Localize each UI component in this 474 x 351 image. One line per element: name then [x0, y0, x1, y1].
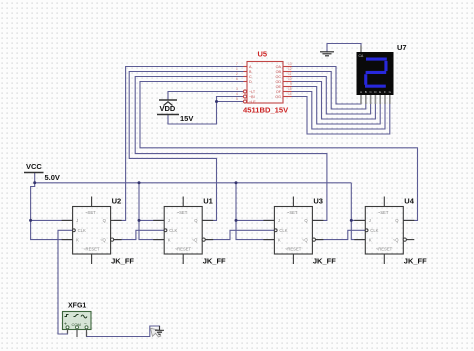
flip-flop U1: [153, 197, 226, 266]
svg-text:U5: U5: [258, 50, 268, 59]
svg-text:JK_FF: JK_FF: [203, 257, 226, 266]
wire U3 notQ to U4 CLK: [316, 230, 365, 239]
flip-flop U2: [62, 197, 135, 266]
wire U1 Q to U5 input B: [129, 72, 245, 221]
svg-text:~LE: ~LE: [249, 100, 256, 104]
svg-text:XFG1: XFG1: [68, 303, 86, 310]
svg-text:10: 10: [288, 77, 292, 81]
junction dots: [29, 100, 353, 222]
mouse cursor: [151, 328, 163, 337]
svg-text:U3: U3: [313, 197, 323, 206]
svg-text:9: 9: [290, 82, 292, 86]
wire VCC drop to U3 J and K: [236, 183, 274, 240]
wire XFG1 output to U2 CLK: [58, 230, 73, 334]
function generator XFG1: [63, 303, 92, 338]
wire VDD bottom to U5 BI pin: [168, 97, 243, 125]
wire U5 OD to display pin D: [290, 82, 375, 120]
svg-text:~LT: ~LT: [249, 90, 256, 94]
wire U5 OG to display pin G: [290, 97, 390, 135]
svg-text:U4: U4: [404, 197, 414, 206]
svg-text:11: 11: [288, 72, 292, 76]
svg-text:~RESET: ~RESET: [376, 247, 393, 252]
svg-text:CA: CA: [359, 54, 364, 58]
svg-text:13: 13: [288, 62, 292, 66]
svg-text:14: 14: [288, 92, 292, 96]
wire U5 OE to display pin E: [290, 87, 380, 125]
wire U5 OB to display pin B: [290, 72, 366, 110]
svg-text:4: 4: [236, 92, 238, 96]
wire U5 OC to display pin C: [290, 77, 371, 115]
svg-text:6: 6: [236, 77, 238, 81]
ground above display: [320, 44, 361, 56]
wire U3 Q to U5 input C: [135, 77, 327, 221]
svg-text:~SET: ~SET: [177, 210, 188, 215]
wire VCC rail: [35, 182, 352, 184]
wire VCC to U2 J and K: [31, 173, 73, 240]
svg-text:~Q: ~Q: [100, 237, 106, 242]
wire U1 notQ to U3 CLK: [206, 230, 274, 239]
svg-text:JK_FF: JK_FF: [404, 257, 427, 266]
wire U2 notQ to U1 CLK: [114, 230, 164, 239]
svg-text:VDD: VDD: [160, 104, 176, 113]
wire XFG1 minus terminal to ground: [87, 326, 160, 337]
wire VCC rail end drop to U4 J and K: [351, 183, 365, 240]
svg-text:OB: OB: [276, 70, 282, 74]
svg-text:~RESET: ~RESET: [175, 247, 192, 252]
svg-text:15: 15: [288, 87, 292, 91]
svg-text:OE: OE: [276, 85, 282, 89]
svg-text:~SET: ~SET: [287, 210, 298, 215]
svg-text:K: K: [168, 237, 171, 242]
wire VCC drop to U1 J and K: [139, 183, 164, 240]
svg-text:OA: OA: [276, 65, 282, 69]
svg-text:JK_FF: JK_FF: [313, 257, 336, 266]
svg-text:CLK: CLK: [169, 228, 177, 233]
svg-text:~RESET: ~RESET: [285, 247, 302, 252]
wire U5 OF to display pin F: [290, 92, 385, 130]
svg-text:J: J: [168, 218, 170, 223]
svg-text:~BI: ~BI: [249, 95, 255, 99]
wire U5 OA to display pin A: [290, 67, 361, 105]
svg-text:~Q: ~Q: [302, 237, 308, 242]
svg-text:OG: OG: [275, 95, 281, 99]
flip-flop U4: [354, 197, 427, 266]
svg-text:U7: U7: [397, 43, 407, 52]
wire U2 Q to U5 input A: [114, 67, 246, 221]
svg-text:~RESET: ~RESET: [83, 247, 100, 252]
svg-text:7: 7: [236, 62, 238, 66]
svg-text:F: F: [384, 90, 386, 94]
svg-text:U1: U1: [203, 197, 213, 206]
svg-text:~Q: ~Q: [192, 237, 198, 242]
svg-text:~Q: ~Q: [393, 237, 399, 242]
svg-text:K: K: [369, 237, 372, 242]
svg-text:D: D: [249, 80, 252, 84]
wire junction branch to U5 LE pin: [217, 101, 244, 103]
flip-flop U3: [263, 197, 336, 266]
power VDD 15V: [157, 100, 193, 123]
seven segment display U7: [357, 43, 407, 104]
svg-text:~SET: ~SET: [378, 210, 389, 215]
ground at XFG1: [155, 326, 164, 334]
svg-text:OD: OD: [275, 80, 281, 84]
svg-text:J: J: [76, 218, 78, 223]
svg-text:~SET: ~SET: [85, 210, 96, 215]
svg-text:CLK: CLK: [370, 228, 378, 233]
svg-text:U2: U2: [112, 197, 122, 206]
svg-text:C: C: [249, 75, 252, 79]
svg-text:JK_FF: JK_FF: [111, 257, 134, 266]
power VCC: [24, 162, 60, 182]
svg-text:15V: 15V: [180, 114, 193, 123]
IC U5 4511BD_15V BCD to 7-segment decoder: [236, 50, 292, 115]
wires group: [31, 67, 418, 337]
svg-text:5.0V: 5.0V: [45, 173, 60, 182]
svg-text:B: B: [365, 90, 367, 94]
svg-text:CLK: CLK: [78, 228, 86, 233]
wire U4 Q to U5 input D: [140, 82, 418, 221]
svg-text:12: 12: [288, 67, 292, 71]
svg-text:2: 2: [236, 72, 238, 76]
svg-text:VCC: VCC: [26, 162, 42, 171]
svg-text:E: E: [379, 90, 381, 94]
svg-text:OC: OC: [275, 75, 281, 79]
svg-text:J: J: [278, 218, 280, 223]
svg-text:1: 1: [236, 67, 238, 71]
svg-text:CLK: CLK: [279, 228, 287, 233]
svg-text:4511BD_15V: 4511BD_15V: [243, 106, 289, 115]
svg-text:OF: OF: [276, 90, 282, 94]
svg-text:3: 3: [236, 87, 238, 91]
svg-text:K: K: [76, 237, 79, 242]
svg-text:K: K: [278, 237, 281, 242]
svg-text:J: J: [369, 218, 371, 223]
svg-text:5: 5: [236, 97, 238, 101]
wire VDD to U5 LT pin: [168, 92, 243, 101]
